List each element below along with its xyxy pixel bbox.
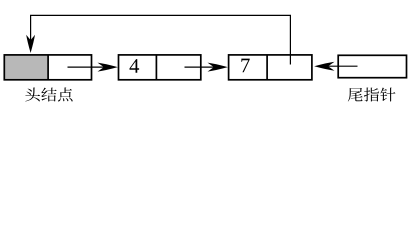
label char 结 <box>41 88 56 102</box>
wire head.next to node 4 <box>68 66 114 68</box>
head node divider <box>47 55 49 80</box>
wire node4.next to node 7 <box>185 66 224 68</box>
label char 指 <box>364 88 379 102</box>
label char 尾 <box>348 88 363 102</box>
head node gray cell fill <box>4 55 48 80</box>
node 4 divider <box>155 55 157 80</box>
node 4 box <box>119 55 201 80</box>
label char 点 <box>58 88 73 102</box>
node 7 divider <box>266 55 268 80</box>
label char 头 <box>25 88 40 102</box>
wire tail pointer to node 7 <box>319 65 358 67</box>
wire node7.next loop back to head <box>31 15 291 64</box>
arrowhead into node 7 <box>208 63 228 72</box>
value 4 <box>130 59 140 73</box>
node 7 box <box>229 55 312 80</box>
arrowhead into head node <box>26 35 35 53</box>
head node box <box>4 55 91 80</box>
label char 针 <box>380 88 395 102</box>
value 7 <box>241 59 249 73</box>
tail pointer box <box>338 55 406 77</box>
arrowhead into node 7 right <box>314 62 334 71</box>
arrowhead into node 4 <box>98 63 118 72</box>
